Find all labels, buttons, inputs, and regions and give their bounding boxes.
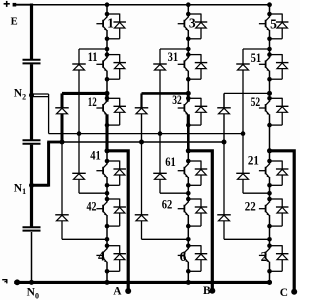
svg-text:N2: N2: [14, 87, 26, 102]
junction dot leg C y=226.1: [267, 224, 272, 229]
wire: output B bracket: [188, 151, 212, 291]
wire: leg A output to V41: [106, 151, 108, 161]
terminal dot N0 end: [14, 279, 20, 285]
wire: leg C tap3 to inner clamp string: [243, 192, 270, 194]
node: leg B upper clamp tap 2: [186, 91, 191, 96]
wire: leg B tap2 to mid clamp string: [142, 92, 189, 95]
junction dot leg C y=79.2: [267, 77, 272, 82]
wire: leg A V41 to tap3: [106, 185, 108, 193]
junction dot leg A y=199: [105, 197, 110, 202]
wire: N2 double link lower: [32, 96, 49, 98]
capacitor C1: [23, 60, 41, 64]
svg-text:C: C: [280, 287, 288, 299]
wire: N2 double link upper: [32, 93, 49, 95]
junction dot leg A y=79.2: [105, 77, 110, 82]
node N2 junction: [29, 93, 34, 98]
node: leg A lower clamp tap 3: [105, 191, 110, 196]
node: leg C upper clamp tap 2: [267, 91, 272, 96]
transistor V32 (IGBT with antiparallel diode): [178, 98, 208, 125]
wire: leg C tap4 to mid clamp string: [224, 238, 270, 240]
junction dot leg C y=125.1: [267, 123, 272, 128]
junction dot leg B y=245.7: [186, 243, 191, 248]
transistor V6 (IGBT with antiparallel diode): [178, 245, 208, 271]
wire: leg B bold tap2 segment: [187, 92, 190, 99]
svg-text:32: 32: [172, 92, 182, 107]
svg-text:31: 31: [168, 49, 179, 64]
junction: N0 rail end at leg C: [267, 280, 272, 285]
node: leg B lower clamp tap 4: [186, 237, 191, 242]
junction dot leg A y=54.6: [105, 52, 110, 57]
wire: leg B V61 to tap3: [187, 185, 189, 193]
wire: leg C V2 to N0 rail: [269, 271, 271, 282]
junction dot leg B y=161: [186, 159, 191, 164]
junction dot leg B y=54.6: [186, 52, 191, 57]
wire: leg A rail to V1: [106, 5, 108, 14]
clamp diode string leg A to N1 (diodes DA3,DA4): [55, 93, 69, 239]
wire: leg A V4 to N0 rail: [106, 271, 108, 282]
wire: leg B tap1 to V31: [187, 49, 189, 55]
wire: leg A tap1 to V11: [106, 49, 108, 55]
transistor V1 (IGBT with antiparallel diode): [96, 14, 126, 39]
junction dot leg B y=98.3: [186, 96, 191, 101]
svg-text:5: 5: [270, 17, 277, 32]
transistor V51 (IGBT with antiparallel diode): [259, 54, 289, 79]
junction: rail end at leg C: [267, 2, 272, 7]
transistor V31 (IGBT with antiparallel diode): [178, 54, 208, 79]
terminal dot B: [209, 288, 215, 294]
wire: leg B rail to V3: [187, 5, 189, 14]
wire: leg B V62 to tap4: [187, 226, 189, 239]
wire: DC bus segment C1 to C2: [30, 64, 33, 139]
transistor V3 (IGBT with antiparallel diode): [178, 14, 208, 39]
transistor V62 (IGBT with antiparallel diode): [178, 199, 208, 227]
terminal dot A: [125, 288, 131, 294]
junction: leg C at N0 rail: [267, 280, 272, 285]
junction: leg A at N0 rail: [105, 280, 110, 285]
junction dot leg A y=185.3: [105, 183, 110, 188]
junction dot leg B y=185.3: [186, 183, 191, 188]
wire: leg A tap3 to inner clamp string: [79, 192, 107, 194]
clamp diode string leg B to N2 (diodes DB1,DB2): [153, 49, 167, 193]
junction dot leg C y=54.6: [267, 52, 272, 57]
svg-text:61: 61: [165, 154, 176, 169]
svg-text:11: 11: [88, 49, 98, 64]
transistor V11 (IGBT with antiparallel diode): [96, 54, 126, 79]
wire: leg A V11 to tap2: [106, 79, 108, 92]
svg-text:6: 6: [180, 249, 187, 264]
junction: leg A mid string at N1 rail: [60, 140, 65, 145]
junction: leg B mid string at N1 rail: [139, 140, 144, 145]
junction dot leg A y=14: [105, 12, 110, 17]
wire: leg B tap3 to inner clamp string: [160, 192, 188, 194]
junction dot leg C y=271.3: [267, 269, 272, 274]
wire: leg C V51 to tap2: [269, 79, 271, 93]
wire: leg A tap1 to inner clamp string: [79, 48, 107, 50]
transistor V2 (IGBT with antiparallel diode): [259, 245, 289, 271]
wire: leg A V1 to tap: [106, 39, 108, 49]
wire: leg B V31 to tap2: [187, 79, 189, 92]
junction dot leg A y=271.3: [105, 269, 110, 274]
node: leg A upper clamp tap 2: [105, 91, 110, 96]
wire: DC bus lower segment (C3 to N0): [31, 232, 33, 282]
wire: N2 distribution rail: [49, 133, 242, 135]
wire: DC bus segment C2 to C3: [30, 145, 33, 227]
svg-text:41: 41: [90, 148, 101, 163]
wire: leg C tap2 to mid clamp string: [224, 92, 270, 94]
wire: leg A V12 to output node: [105, 125, 108, 151]
terminal square at E: [13, 3, 31, 7]
wire: leg C tap1 to inner clamp string: [243, 48, 270, 50]
junction: leg B at N0 rail: [186, 280, 191, 285]
wire: leg C tap2 to V52: [269, 93, 271, 98]
wire: leg C V52 to output node: [269, 125, 271, 151]
node: leg A upper clamp tap 1: [105, 47, 110, 52]
junction dot leg B y=226.1: [186, 224, 191, 229]
junction dot leg C y=199: [267, 197, 272, 202]
node: output A junction: [105, 148, 110, 153]
wire: leg C V21 to tap3: [269, 185, 271, 193]
svg-text:21: 21: [248, 152, 259, 167]
terminal dot C: [291, 289, 297, 295]
capacitor C2: [23, 140, 41, 144]
junction: leg B at top rail: [186, 2, 191, 7]
junction: leg C mid string at N1 rail: [222, 140, 227, 145]
svg-text:N0: N0: [27, 286, 39, 300]
wire: N1 feed horizontal (bold): [32, 184, 49, 187]
wire: N1 distribution rail: [62, 141, 224, 143]
junction dot leg C y=98.3: [267, 96, 272, 101]
transistor V21 (IGBT with antiparallel diode): [259, 161, 289, 186]
junction: leg C at top rail: [267, 2, 272, 7]
transistor V12 (IGBT with antiparallel diode): [96, 98, 126, 125]
capacitor C3: [23, 227, 41, 230]
junction dot leg B y=125.1: [186, 123, 191, 128]
wire: N2 drop to rail: [48, 94, 50, 134]
svg-text:12: 12: [88, 94, 97, 109]
node: leg C lower clamp tap 3: [267, 191, 272, 196]
node: leg A lower clamp tap 4: [105, 237, 110, 242]
svg-text:3: 3: [189, 16, 196, 31]
node: leg C lower clamp tap 4: [267, 237, 272, 242]
svg-text:62: 62: [162, 197, 173, 212]
junction dot leg C y=14: [267, 12, 272, 17]
junction dot leg A y=226.1: [105, 224, 110, 229]
svg-text:51: 51: [251, 50, 262, 65]
wire: leg B tap4 to V6: [187, 239, 189, 245]
wire: leg C rail to V5: [269, 5, 271, 14]
wire: leg A tap4 to V4: [106, 239, 108, 245]
transistor V42 (IGBT with antiparallel diode): [96, 199, 126, 227]
svg-text:4: 4: [98, 248, 105, 263]
wire: leg A bold tap2 segment: [105, 92, 108, 99]
wire: leg A tap4 to mid clamp string: [62, 238, 107, 240]
svg-text:1: 1: [107, 16, 114, 31]
wire: leg B output to V61: [187, 151, 189, 161]
node N1 junction: [29, 183, 34, 188]
transistor V41 (IGBT with antiparallel diode): [96, 161, 126, 186]
wire: N1 feed vertical (bold): [47, 142, 50, 187]
clamp diode string leg B to N1 (diodes DB3,DB4): [135, 93, 149, 239]
svg-text:42: 42: [87, 198, 97, 213]
arrow mark at N0 end: [2, 279, 7, 283]
clamp diode string leg A to N2 (diodes DA1,DA2): [72, 49, 86, 193]
node: output B junction: [186, 148, 191, 153]
wire: leg A V42 to tap4: [106, 226, 108, 239]
wire: bottom DC rail N0: [14, 281, 269, 284]
wire: leg B tap1 to inner clamp string: [160, 48, 188, 50]
junction: leg A inner string at N2 rail: [77, 131, 82, 136]
node: leg B upper clamp tap 1: [186, 47, 191, 52]
node: leg B lower clamp tap 3: [186, 191, 191, 196]
svg-text:A: A: [113, 286, 122, 298]
junction dot leg B y=38.8: [186, 37, 191, 42]
junction dot leg A y=245.7: [105, 243, 110, 248]
transistor V61 (IGBT with antiparallel diode): [178, 161, 208, 186]
wire: leg C output to V21: [269, 151, 271, 161]
junction dot leg A y=161: [105, 159, 110, 164]
wire: leg B tap4 to mid clamp string: [142, 238, 189, 240]
node: leg C upper clamp tap 1: [267, 47, 272, 52]
svg-text:E: E: [11, 16, 18, 27]
wire: output A bracket: [107, 151, 128, 291]
wire: leg A tap2 to mid clamp string: [62, 92, 107, 95]
wire: leg C tap3 to V22: [269, 193, 271, 199]
wire: leg B V32 to output node: [187, 125, 190, 151]
svg-text:N1: N1: [14, 181, 26, 196]
wire: leg B V6 to N0 rail: [187, 271, 189, 282]
junction dot leg B y=271.3: [186, 269, 191, 274]
node: output C junction: [267, 148, 272, 153]
wire: leg C V22 to tap4: [269, 226, 271, 239]
junction dot leg B y=14: [186, 12, 191, 17]
junction: leg B inner string at N2 rail: [158, 131, 163, 136]
junction dot leg B y=199: [186, 197, 191, 202]
junction dot leg A y=125.1: [105, 123, 110, 128]
wire: output C bracket: [270, 151, 295, 292]
wire: top DC rail E: [30, 4, 269, 6]
junction: bus to N0 rail: [29, 280, 34, 285]
junction: leg C inner string at N2 rail: [241, 131, 246, 136]
svg-text:22: 22: [245, 199, 256, 214]
wire: DC bus upper segment (E to C1): [30, 4, 33, 60]
wire: leg C tap4 to V2: [269, 239, 271, 245]
transistor V52 (IGBT with antiparallel diode): [259, 98, 289, 125]
plus terminal of DC source: [4, 1, 10, 7]
junction dot leg A y=38.8: [105, 37, 110, 42]
junction dot leg C y=185.3: [267, 183, 272, 188]
clamp diode string leg C to N2 (diodes DC1,DC2): [236, 49, 250, 193]
wire: leg B tap3 to V62: [187, 193, 189, 199]
wire: leg C V5 to tap: [269, 39, 271, 49]
junction dot leg C y=245.7: [267, 243, 272, 248]
junction: leg A at top rail: [105, 2, 110, 7]
junction dot leg B y=79.2: [186, 77, 191, 82]
junction dot leg A y=98.3: [105, 96, 110, 101]
wire: N1 rail bold segment: [47, 141, 62, 144]
clamp diode string leg C to N1 (diodes DC3,DC4): [217, 93, 231, 239]
transistor V22 (IGBT with antiparallel diode): [259, 199, 289, 227]
transistor V5 (IGBT with antiparallel diode): [259, 14, 289, 39]
wire: leg A tap3 to V42: [106, 193, 108, 199]
transistor V4 (IGBT with antiparallel diode): [96, 245, 126, 271]
svg-text:52: 52: [251, 94, 261, 109]
svg-text:B: B: [203, 285, 211, 297]
junction dot leg C y=161: [267, 159, 272, 164]
wire: leg C tap1 to V51: [269, 49, 271, 55]
svg-text:2: 2: [261, 249, 268, 264]
junction dot leg C y=38.8: [267, 37, 272, 42]
wire: leg B V3 to tap: [187, 39, 189, 49]
